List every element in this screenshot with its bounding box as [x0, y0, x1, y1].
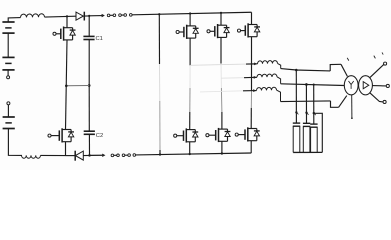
- inductor Lf1 (phase A filter): [257, 61, 277, 64]
- capacitor Cf2 legs: [302, 126, 304, 152]
- wire C1 node to rail break: [89, 15, 103, 17]
- transistor S2 (bottom leg A) drain jog: [186, 129, 195, 131]
- speck mark a: [347, 58, 349, 61]
- node cap1 arrow mark: [295, 111, 297, 113]
- capacitor C1 top lead: [88, 16, 90, 36]
- node C1 top junction: [88, 15, 90, 17]
- wire generator output mid: [372, 85, 386, 87]
- transistor S4 (bottom leg B) body diode cathode stub: [227, 129, 229, 131]
- transistor S1 (top leg A) gate circle: [176, 30, 179, 33]
- wire phase B to transformer: [281, 84, 345, 86]
- transistor S3 (top leg B) body diode anode stub: [226, 33, 228, 38]
- wire D1 to C1 node: [84, 15, 89, 17]
- wire top rail to Q1 drain node: [45, 15, 68, 18]
- transistor S3 (top leg B) drain jog: [218, 24, 227, 26]
- transistor Q2 source lead: [65, 142, 67, 156]
- transistor S4 (bottom leg B) body diode anode stub: [227, 137, 229, 142]
- node bottom rail leg A junction: [189, 153, 191, 155]
- top rail inverter section: [132, 12, 251, 15]
- node bottom rail x160 junction: [159, 153, 161, 155]
- wire D2 to C2 node: [83, 154, 89, 156]
- transistor S3 (top leg B) body diode cathode stub: [226, 25, 228, 27]
- node cap2 tap: [305, 83, 308, 86]
- transistor S5 (top leg C) gate bar: [244, 25, 246, 35]
- wire transformer neutral drop: [351, 95, 353, 118]
- node top rail leg A junction: [189, 12, 191, 14]
- transistor Q1 source jog: [64, 39, 73, 41]
- transistor S1 (top leg A) source jog: [187, 37, 196, 39]
- transistor S6 (bottom leg C) gate circle: [235, 133, 238, 136]
- transistor S4 (bottom leg B) body diode bar: [225, 131, 231, 133]
- transistor S1 (top leg A) drain lead: [189, 14, 191, 27]
- transistor Q1 gate lead: [56, 33, 61, 35]
- wire dc-link vertical dark bottom: [159, 150, 161, 155]
- transistor S1 (top leg A) gate lead: [179, 31, 184, 33]
- transistor Q1 body diode bar: [70, 29, 76, 31]
- transistor S5 (top leg C) drain jog: [248, 24, 257, 26]
- transistor S5 (top leg C) body diode bar: [254, 26, 260, 28]
- terminal circle top: [384, 62, 387, 65]
- transistor Q2 gate bar: [58, 130, 60, 140]
- transistor S6 (bottom leg C) drain jog: [248, 128, 257, 130]
- transistor S3 (top leg B) channel bar: [217, 24, 219, 38]
- node bottom rail leg B junction: [221, 152, 223, 154]
- node cap3 crossing smudge: [313, 84, 315, 86]
- bottom rail break arrowhead: [102, 154, 104, 157]
- wire cap3 drop: [313, 85, 315, 124]
- transistor S2 (bottom leg A) body diode anode stub: [194, 137, 196, 142]
- transistor S5 (top leg C) gate circle: [237, 29, 240, 32]
- transistor S6 (bottom leg C) gate bar: [244, 129, 246, 139]
- transistor Q1 body diode triangle: [70, 30, 75, 35]
- wire mid node to C2: [88, 85, 90, 131]
- transistor S4 (bottom leg B) gate bar: [215, 130, 217, 140]
- generator triangle mark: [363, 82, 369, 89]
- bottom rail inverter section: [136, 153, 252, 155]
- transistor S5 (top leg C) gate lead: [241, 30, 246, 32]
- wire battery bottom lead: [8, 129, 22, 156]
- transistor S2 (bottom leg A) channel bar: [185, 128, 187, 142]
- wire dc-link vertical dark top: [158, 14, 160, 64]
- wire phase C funnel step down: [331, 101, 339, 107]
- wire phase A faint from leg A: [190, 64, 246, 65]
- transistor S6 (bottom leg C) source jog: [248, 140, 257, 142]
- wire leg C gray lower: [250, 91, 252, 108]
- wire leg A gray lower: [189, 88, 191, 112]
- node top rail leg B junction: [220, 12, 222, 14]
- phase B lead arrow: [254, 76, 256, 78]
- wire Q2 node to D2 cathode: [66, 155, 76, 157]
- transistor S4 (bottom leg B) drain jog: [219, 128, 228, 130]
- svg-text:C2: C2: [96, 133, 103, 139]
- capacitor Cf3 plates: [310, 123, 317, 125]
- transistor S5 (top leg C) body diode triangle: [254, 27, 259, 32]
- wire phase A to funnel: [281, 69, 331, 71]
- wire phase A diagonal into transformer: [341, 64, 347, 76]
- transistor S2 (bottom leg A) body diode cathode stub: [194, 130, 196, 132]
- transistor Q1 drain lead: [66, 17, 68, 29]
- wire battery group1 to group2: [7, 33, 9, 57]
- wire generator output bottom diagonal: [370, 93, 383, 102]
- neutral end tick: [351, 117, 353, 119]
- transistor S3 (top leg B) gate circle: [207, 30, 210, 33]
- inductor Lf2 (phase B filter): [257, 74, 277, 77]
- wire bottom rail to Q2 source node: [41, 154, 66, 156]
- wire dc-link vertical gray lower: [159, 101, 161, 150]
- transistor Q1 body diode cathode stub: [72, 28, 74, 30]
- speck mark b: [374, 56, 376, 59]
- capacitor C1 plates: [83, 35, 94, 37]
- diode D1 triangle: [76, 12, 83, 20]
- transistor S2 (bottom leg A) source jog: [186, 141, 195, 143]
- transistor Q1 channel bar: [63, 27, 65, 41]
- transistor S6 (bottom leg C) body diode bar: [254, 130, 260, 132]
- wire phase C coil end step: [277, 90, 281, 101]
- node cap3 arrow mark: [313, 112, 315, 114]
- diode D1 cathode bar: [83, 12, 85, 21]
- wire cap2 drop: [305, 84, 307, 123]
- wire leg B upper (S3 source): [220, 37, 222, 63]
- inductor Lf3 (phase C filter): [256, 87, 276, 90]
- node Q1 drain junction: [66, 15, 68, 17]
- transistor Q2 gate lead: [51, 135, 59, 137]
- transistor S2 (bottom leg A) gate lead: [177, 135, 184, 137]
- diode D2 triangle: [75, 151, 83, 160]
- transistor S2 (bottom leg A) gate circle: [174, 134, 177, 137]
- transistor S6 (bottom leg C) body diode anode stub: [256, 136, 258, 141]
- wire leg A faint middle: [189, 65, 191, 88]
- transistor Q2 body diode triangle: [68, 132, 73, 137]
- transistor Q2 body diode cathode stub: [70, 130, 72, 132]
- transistor Q2 body diode anode stub: [70, 137, 72, 142]
- battery stack top lead: [8, 18, 20, 22]
- speck mark c: [382, 52, 383, 54]
- capacitor Cf1 legs: [292, 126, 294, 152]
- transistor Q1 gate circle: [53, 32, 56, 35]
- transistor S2 (bottom leg A) gate bar: [183, 131, 185, 141]
- transistor S6 (bottom leg C) channel bar: [247, 127, 249, 141]
- top rail break arrowhead: [102, 14, 104, 16]
- top rail continuation circles: [107, 14, 110, 17]
- wire phase C diagonal into transformer: [339, 96, 347, 108]
- transistor S4 (bottom leg B) gate lead: [209, 134, 216, 136]
- wire Q1 node to D1 anode: [67, 15, 76, 17]
- transistor S3 (top leg B) gate lead: [210, 30, 215, 32]
- transistor S5 (top leg C) body diode anode stub: [256, 32, 258, 37]
- battery cell group 1: [2, 21, 14, 23]
- transistor Q2 body diode bar: [68, 131, 74, 133]
- transistor S5 (top leg C) body diode cathode stub: [256, 25, 258, 27]
- transistor S5 (top leg C) drain lead: [251, 12, 253, 24]
- transistor Q2 drain jog: [62, 129, 71, 131]
- wire cap bank top-right hook: [314, 113, 323, 152]
- inductor L1 (boost input): [20, 14, 44, 18]
- node cap2 arrow mark: [305, 112, 307, 114]
- transistor Q1 gate bar: [60, 29, 62, 39]
- transistor S5 (top leg C) channel bar: [247, 23, 249, 37]
- wire terminal to group3: [7, 105, 9, 117]
- node boost leg midpoint: [65, 85, 68, 88]
- terminal circle mid: [386, 84, 389, 87]
- phase A lead arrow: [254, 63, 256, 65]
- wire C1 to mid node: [88, 40, 90, 86]
- wire phase C lead to filter coil: [243, 90, 257, 92]
- wire Q1 source to Q2 drain (leg): [66, 40, 68, 130]
- transistor Q1 body diode anode stub: [72, 35, 74, 40]
- transistor S3 (top leg B) body diode triangle: [224, 28, 229, 33]
- bottom rail continuation circles: [111, 154, 114, 157]
- capacitor C2 bottom lead: [88, 134, 90, 155]
- transistor S6 (bottom leg C) body diode cathode stub: [256, 129, 258, 131]
- transistor Q2 gate circle: [48, 134, 51, 137]
- transistor S2 (bottom leg A) source lead: [189, 142, 191, 154]
- transistor Q2 source jog: [62, 141, 71, 143]
- wire phase B lead to filter coil: [244, 76, 257, 78]
- transistor S3 (top leg B) source jog: [218, 36, 227, 38]
- wire leg C into S6 drain: [250, 108, 252, 129]
- wire boost midpoint link: [66, 84, 89, 86]
- transistor S5 (top leg C) source jog: [248, 36, 257, 38]
- transistor S1 (top leg A) channel bar: [186, 25, 188, 39]
- transistor S3 (top leg B) gate bar: [214, 26, 216, 36]
- phase C lead arrow: [253, 90, 255, 92]
- wire leg C upper (S5 source to phase tap): [251, 37, 253, 91]
- wire dc-link vertical faint middle: [159, 64, 161, 101]
- capacitor Cf2 plates: [303, 122, 310, 124]
- wire phase A funnel step up: [330, 64, 341, 71]
- transistor S4 (bottom leg B) channel bar: [218, 128, 220, 142]
- capacitor Cf1 plates: [293, 122, 300, 124]
- wire C2 node to rail break: [90, 154, 104, 156]
- transistor S3 (top leg B) drain lead: [220, 13, 222, 26]
- transistor Q1 drain jog: [64, 27, 73, 29]
- transistor S4 (bottom leg B) body diode triangle: [225, 132, 230, 137]
- transformer primary circle (Y): [344, 76, 358, 95]
- transistor S1 (top leg A) body diode anode stub: [195, 33, 197, 38]
- transistor S4 (bottom leg B) gate circle: [206, 134, 209, 137]
- battery cell group 2: [2, 56, 14, 58]
- transistor S6 (bottom leg C) gate lead: [238, 134, 245, 136]
- transistor S4 (bottom leg B) source jog: [219, 140, 228, 142]
- transformer Y mark: [349, 81, 354, 85]
- wire phase C to funnel: [281, 100, 331, 103]
- wire leg B into S4 drain: [221, 112, 223, 129]
- wire leg A into S2 drain: [189, 112, 191, 130]
- transistor S4 (bottom leg B) source lead: [221, 141, 223, 153]
- transistor S1 (top leg A) gate bar: [183, 27, 185, 37]
- svg-text:C1: C1: [96, 36, 103, 42]
- wire leg A upper (S1 source to phase tap): [189, 38, 191, 65]
- wire phase B faint from leg B: [221, 77, 244, 80]
- wire cap1 drop: [295, 70, 297, 123]
- transistor S2 (bottom leg A) body diode bar: [192, 131, 198, 133]
- node top rail x160 junction: [158, 13, 160, 15]
- wire phase C faint left ghost: [200, 91, 243, 92]
- battery mid terminal node upper: [7, 76, 10, 79]
- wire leg B gray lower: [220, 88, 223, 112]
- diode D2 cathode bar: [74, 151, 76, 161]
- transistor S3 (top leg B) body diode bar: [224, 27, 230, 29]
- transistor S1 (top leg A) body diode bar: [193, 27, 199, 29]
- transistor S2 (bottom leg A) body diode triangle: [193, 132, 198, 137]
- transistor S6 (bottom leg C) body diode triangle: [254, 131, 259, 136]
- wire generator output top diagonal: [370, 64, 384, 77]
- node cap midpoint: [88, 84, 91, 87]
- generator circle (delta): [359, 76, 373, 95]
- battery mid terminal node lower: [7, 102, 10, 105]
- wire cap bank bottom bar: [293, 151, 322, 153]
- transistor S1 (top leg A) body diode cathode stub: [195, 26, 197, 28]
- node C2 bottom junction: [88, 154, 91, 157]
- wire group2 to positive terminal: [7, 70, 9, 76]
- capacitor Cf3 legs: [310, 127, 312, 152]
- transistor Q2 channel bar: [61, 128, 63, 142]
- wire phase A lead to filter coil: [246, 63, 258, 65]
- battery cell group 3: [3, 116, 15, 118]
- transistor S1 (top leg A) body diode triangle: [193, 29, 198, 34]
- terminal circle bottom: [383, 100, 386, 103]
- wire leg B faint middle: [220, 64, 222, 89]
- wire phase B coil end step: [277, 77, 281, 84]
- wire phase A coil end step: [278, 63, 281, 68]
- inductor L2 (bottom return): [22, 155, 41, 158]
- capacitor C2 plates: [84, 130, 95, 132]
- transistor S1 (top leg A) drain jog: [187, 25, 196, 27]
- transistor S6 (bottom leg C) source lead: [250, 141, 252, 153]
- node cap1 tap: [295, 69, 298, 72]
